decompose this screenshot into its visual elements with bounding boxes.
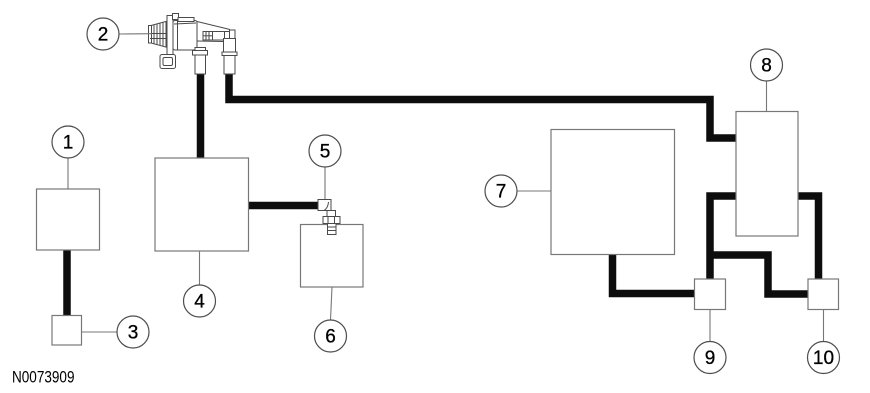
valve mounting flange xyxy=(167,14,179,62)
svg-text:1: 1 xyxy=(63,133,74,154)
wire hose from box 8 right side down to box 10 top xyxy=(798,196,819,279)
valve bracket tab xyxy=(160,55,176,69)
component box 4 xyxy=(155,158,249,251)
component box 3 xyxy=(52,316,82,346)
callout circle 5 xyxy=(309,135,341,167)
svg-text:3: 3 xyxy=(128,323,139,344)
wire hose from box 1 down to box 3 xyxy=(63,250,71,316)
valve left diaphragm cone xyxy=(149,21,168,48)
callout circle 2 xyxy=(87,18,119,50)
valve nozzle stem xyxy=(197,22,235,42)
fitting item 5 elbow into box 6 xyxy=(318,200,340,235)
component box 6 xyxy=(301,225,364,288)
component box 8 xyxy=(736,112,798,237)
callout circle 1 xyxy=(52,126,84,158)
callout leader line 1 xyxy=(67,158,69,189)
svg-text:6: 6 xyxy=(325,327,336,348)
callout leader line 2 xyxy=(119,33,152,35)
callout circle 3 xyxy=(117,316,149,348)
svg-text:9: 9 xyxy=(705,348,716,369)
callout leader line 6 xyxy=(331,287,333,320)
svg-text:2: 2 xyxy=(98,25,109,46)
component box 1 xyxy=(37,189,100,250)
svg-text:5: 5 xyxy=(320,142,331,163)
callout circle 9 xyxy=(694,342,726,374)
callout circle 8 xyxy=(751,49,783,81)
svg-text:7: 7 xyxy=(496,182,507,203)
valve assembly item 2 xyxy=(149,14,238,75)
callout leader line 8 xyxy=(766,81,768,112)
callout circle 7 xyxy=(485,175,517,207)
callout circle 10 xyxy=(808,342,840,374)
component box 9 xyxy=(695,279,726,310)
callout leader line 7 xyxy=(517,190,551,192)
component box 7 xyxy=(551,130,675,255)
wire hose from box 7 bottom to box 9 left xyxy=(613,255,695,294)
svg-text:8: 8 xyxy=(761,56,772,77)
svg-text:N0073909: N0073909 xyxy=(12,369,75,387)
valve main body xyxy=(173,18,197,51)
valve right elbow port xyxy=(222,39,237,75)
wire hose from valve left port to box 4 xyxy=(197,73,205,158)
callout leader line 10 xyxy=(823,310,825,342)
svg-text:4: 4 xyxy=(194,292,205,313)
callout circle 4 xyxy=(184,285,216,317)
svg-text:10: 10 xyxy=(813,348,834,369)
wire hose from box 4 right to fitting 5 xyxy=(249,202,320,210)
component box 10 xyxy=(808,279,839,310)
callout leader line 3 xyxy=(82,331,118,333)
valve left port xyxy=(193,48,208,75)
wire hose from valve right port across top to box 8 xyxy=(229,73,736,138)
wire hose branch junction to box 10 left xyxy=(707,255,809,294)
callout leader line 5 xyxy=(324,167,326,199)
wire hose from box 8 left side down to box 9 top xyxy=(710,196,736,279)
callout leader line 9 xyxy=(709,310,711,342)
callout leader line 4 xyxy=(199,251,201,285)
callout circle 6 xyxy=(315,320,347,352)
